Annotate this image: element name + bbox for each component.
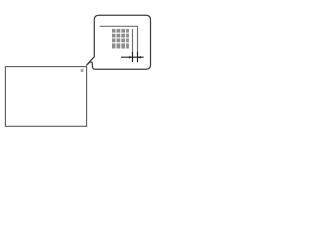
left arrowhead (points right): [129, 56, 132, 59]
selection marker square at rectangle top-right: [81, 69, 84, 72]
big rectangle (document/shape): [5, 67, 86, 127]
callout bubble with tail: [86, 15, 150, 69]
magnified shape edge (L corner): [100, 26, 138, 62]
gridline parallel to edge: [132, 29, 134, 62]
grid block of cells: [112, 29, 129, 49]
dimension line: [121, 56, 144, 58]
right arrowhead (points left): [138, 56, 141, 59]
dimension extension ticks: [133, 52, 138, 62]
